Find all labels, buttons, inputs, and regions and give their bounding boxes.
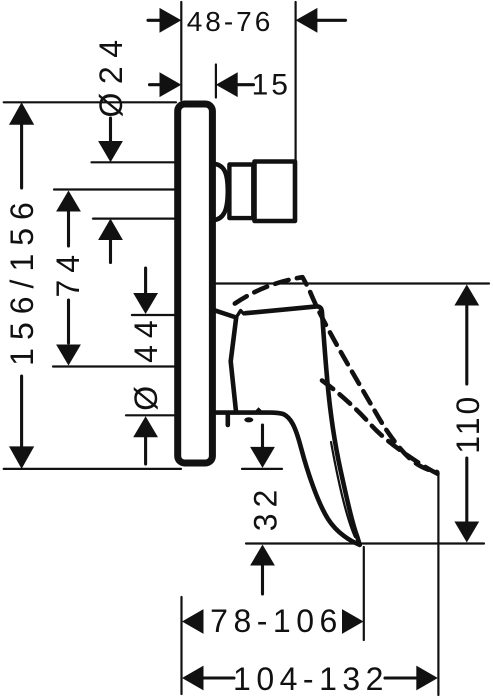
handle notch: [236, 311, 244, 318]
svg-text:Ø24: Ø24: [93, 32, 129, 118]
handle small mark on bottom line: [254, 407, 263, 412]
wire bottom-left extension (x=181.5): [180, 597, 182, 694]
dimension O44 bottom arrow: [133, 416, 158, 464]
dimension O44 top arrow: [133, 268, 158, 314]
dimension 104-132 left arrow: [182, 666, 234, 691]
wire O24 bottom tick: [93, 218, 176, 220]
wire plate top extension (y=102.3): [4, 101, 176, 103]
wire O44 top tick (y=315): [132, 314, 176, 316]
dashed handle upper edge (pulled position): [230, 277, 438, 472]
dimension 15 left arrow: [150, 72, 182, 97]
svg-text:74: 74: [50, 248, 86, 298]
supply stub small cylinder: [229, 165, 253, 219]
handle connector from plate: [215, 310, 237, 317]
dimension 48-76 left arrow: [148, 8, 181, 33]
dimension O24 top arrow: [98, 118, 123, 162]
wire 74 bottom tick (y=366.5): [53, 365, 176, 367]
reference line 110 top (y=283.5): [216, 282, 490, 284]
wire extension from dashed lever tip (x=438): [437, 472, 439, 695]
wire 74 top tick (y=189.5): [54, 188, 176, 190]
handle lever inner line: [331, 442, 355, 537]
reference line bottom (y=543.5): [246, 542, 484, 544]
dimension 32 bottom arrow: [250, 545, 275, 595]
handle small mark below bottom line: [244, 417, 253, 422]
wire top extension line right (stub end x=295.6): [295, 2, 297, 160]
dimension 78-106 right arrow: [342, 609, 364, 634]
dimension 110 bottom arrow: [454, 458, 479, 543]
dimension 74 top arrow: [56, 191, 81, 247]
dimension 48-76 right arrow: [296, 8, 346, 33]
wire extension from solid lever tip (x=363.8): [363, 547, 365, 640]
svg-text:78-106: 78-106: [210, 603, 343, 639]
dimension 156/156 vertical line with arrows: [9, 102, 34, 469]
wire top extension line left (wall plane x=181): [180, 2, 182, 100]
wire O44 bottom tick (y=415.3): [126, 414, 177, 416]
handle lever lower edge and bottom line: [215, 413, 360, 545]
handle skirt left edge: [231, 318, 237, 411]
svg-text:15: 15: [252, 69, 291, 102]
supply stub bulge on plate: [213, 164, 228, 221]
svg-text:32: 32: [248, 484, 284, 532]
svg-text:48-76: 48-76: [187, 6, 274, 37]
dimension 74 bottom arrow: [56, 300, 81, 366]
dimension 15 right arrow: [216, 72, 254, 97]
wall plate (escutcheon side view): [178, 104, 213, 463]
handle top and right edge down to lever tip: [246, 306, 360, 544]
dimension 78-106 left arrow: [182, 609, 204, 634]
wire 32 top tick: [242, 468, 282, 470]
dashed handle lower edge: [322, 381, 438, 475]
dimension 32 top arrow: [250, 425, 275, 468]
dimension 104-132 right arrow: [385, 666, 438, 691]
svg-text:110: 110: [450, 394, 486, 454]
wire extension line for 15 (x=215.9): [215, 65, 217, 98]
wire O24 top tick: [92, 161, 177, 163]
svg-text:156/156: 156/156: [4, 194, 40, 366]
supply stub large cylinder: [255, 162, 296, 222]
dimension O24 bottom arrow: [98, 219, 123, 263]
wire plate bottom extension (y=468.9): [4, 468, 181, 470]
dimension 110 top arrow: [454, 285, 479, 385]
svg-text:Ø 44: Ø 44: [128, 313, 164, 410]
svg-text:104-132: 104-132: [233, 661, 389, 697]
cartridge sleeve stub below handle: [226, 414, 231, 425]
